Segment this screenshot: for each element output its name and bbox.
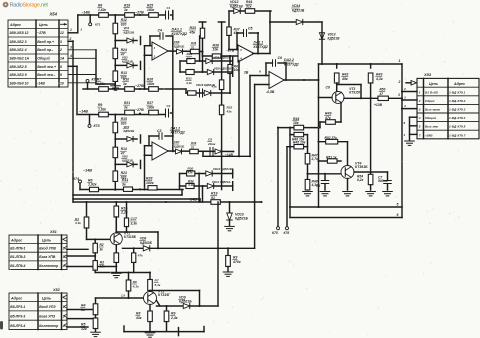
svg-text:2: 2 [80,28,83,32]
svg-text:Вход УПВ: Вход УПВ [39,247,56,251]
svg-text:-14В: -14В [37,81,45,85]
svg-text:2,4к: 2,4к [170,316,178,320]
svg-text:10: 10 [60,81,64,85]
svg-text:КД521Б: КД521Б [235,217,249,221]
svg-text:2В: 2В [243,71,249,75]
svg-text:2: 2 [69,37,72,41]
svg-text:Вход УПЗ: Вход УПЗ [39,305,56,309]
svg-text:51: 51 [191,145,195,149]
svg-text:К75: К75 [272,231,278,235]
svg-text:VD9 КД521В: VD9 КД521В [214,66,231,70]
svg-text:4: 4 [418,116,421,120]
svg-text:R52 27к: R52 27к [325,136,338,140]
svg-text:В5-ЛР3-4: В5-ЛР3-4 [10,324,25,328]
svg-text:КД521В: КД521В [292,8,305,12]
svg-text:С6: С6 [278,56,282,60]
svg-text:КД521В: КД521В [230,5,243,9]
svg-text:4,3к: 4,3к [185,81,192,85]
svg-text:1-ВД-Х79.3: 1-ВД-Х79.3 [449,108,466,112]
svg-text:VD10 КД521В: VD10 КД521В [213,167,232,171]
svg-text:Вых лев: Вых лев [425,125,438,129]
svg-text:6: 6 [404,121,406,125]
svg-text:1: 1 [70,28,72,32]
svg-text:Цепь: Цепь [42,238,51,242]
svg-text:3: 3 [419,108,421,112]
svg-text:3: 3 [398,93,400,97]
svg-text:КТ315Б: КТ315Б [124,235,137,239]
svg-text:R45 10к: R45 10к [293,140,306,144]
svg-text:3к: 3к [81,308,85,312]
svg-text:Адрес: Адрес [453,82,465,86]
svg-text:База УПВ: База УПВ [39,255,56,259]
svg-text:3к: 3к [123,82,127,86]
svg-text:47к: 47к [324,116,331,120]
svg-text:К157УД2: К157УД2 [172,32,188,36]
svg-text:Общий: Общий [425,116,436,120]
svg-text:180к: 180к [147,82,155,86]
svg-text:4,3к: 4,3к [74,221,81,225]
svg-text:Вход лев.+: Вход лев.+ [37,65,56,69]
svg-text:КД521В: КД521В [122,60,133,64]
svg-text:С3: С3 [157,129,162,133]
svg-text:1: 1 [154,46,156,50]
svg-text:Вход пр.+: Вход пр.+ [37,40,54,44]
svg-text:43к: 43к [186,57,192,61]
svg-text:180к: 180к [147,105,155,109]
svg-text:Сброс: Сброс [425,99,435,103]
svg-text:~14В: ~14В [79,110,88,114]
svg-text:К74: К74 [73,177,79,181]
svg-text:1-ВД-Х79.1: 1-ВД-Х79.1 [449,90,466,94]
svg-text:RadioStorage.net: RadioStorage.net [10,3,49,9]
svg-text:КТ315Г: КТ315Г [158,293,171,297]
svg-text:12: 12 [60,31,64,35]
svg-text:1В9-ХБ0 10: 1В9-ХБ0 10 [9,81,28,85]
svg-text:3,3к: 3,3к [131,221,138,225]
svg-text:1В9-ХБ2 8: 1В9-ХБ2 8 [9,65,26,69]
svg-text:180к: 180к [146,181,154,185]
svg-text:КТ315Г: КТ315Г [349,91,362,95]
svg-text:3к: 3к [100,247,104,251]
svg-text:Коллектор: Коллектор [39,264,58,268]
svg-text:К157УД2: К157УД2 [254,45,268,49]
svg-text:В5-ЛР3-1: В5-ЛР3-1 [10,305,25,309]
svg-text:51: 51 [211,196,215,200]
svg-text:4,3к: 4,3к [187,183,194,187]
svg-text:4,3к: 4,3к [375,77,383,81]
svg-text:8: 8 [60,65,62,69]
svg-text:КД521В: КД521В [124,129,135,133]
svg-text:2,7к: 2,7к [311,157,319,161]
svg-text:12к: 12к [81,327,87,331]
svg-text:500мк: 500мк [378,179,388,183]
svg-text:С1: С1 [167,6,171,10]
svg-text:180к: 180к [147,8,155,12]
svg-text:КД521В: КД521В [124,31,135,35]
svg-text:~27В: ~27В [135,108,144,112]
svg-text:4: 4 [62,324,65,328]
svg-text:43к: 43к [211,84,217,88]
svg-text:+13В: +13В [374,103,383,107]
svg-text:С8: С8 [326,86,330,90]
svg-text:КД521В: КД521В [328,36,341,40]
svg-text:3: 3 [60,40,62,44]
svg-text:45к: 45к [341,77,348,81]
svg-text:Адрес: Адрес [10,238,22,242]
svg-text:5,1к: 5,1к [155,283,161,287]
svg-text:+14В: +14В [188,198,197,202]
svg-text:Х52: Х52 [52,288,61,292]
svg-text:2: 2 [403,87,406,91]
svg-text:КД521В: КД521В [122,159,133,163]
svg-text:1,62к: 1,62к [97,82,105,86]
svg-text:6,2к: 6,2к [357,178,364,182]
svg-text:3: 3 [404,95,406,99]
svg-text:~27В: ~27В [135,11,144,15]
svg-text:51к: 51к [246,5,252,9]
svg-text:КД503Б: КД503Б [174,144,184,148]
svg-text:2: 2 [59,48,62,52]
svg-text:С2: С2 [167,104,171,108]
svg-text:Х51: Х51 [49,230,57,234]
svg-text:1-ВД-Х79.2: 1-ВД-Х79.2 [449,99,466,103]
svg-text:К73: К73 [94,124,100,128]
svg-text:R51 1к: R51 1к [326,155,337,159]
svg-text:43к: 43к [187,171,193,175]
svg-text:43к: 43к [226,109,232,113]
svg-text:К157УД2: К157УД2 [171,131,185,135]
svg-text:~27В: ~27В [135,84,144,88]
svg-text:Цепь: Цепь [429,82,438,86]
svg-text:470к: 470к [232,260,241,264]
svg-text:Цепь: Цепь [39,23,48,27]
svg-text:1А: 1А [60,57,65,61]
svg-text:2: 2 [153,55,156,59]
svg-text:Адрес: Адрес [10,297,22,301]
svg-text:Адрес: Адрес [9,23,21,27]
svg-text:К76: К76 [284,231,290,235]
svg-text:+28В: +28В [425,133,433,137]
svg-text:47: 47 [379,92,384,96]
svg-text:3к: 3к [124,105,128,109]
svg-text:КТ361Б: КТ361Б [355,165,368,169]
svg-text:Вход лев.-: Вход лев.- [37,73,56,77]
svg-text:КД503Б: КД503Б [140,241,153,245]
svg-text:10к: 10к [213,48,219,52]
svg-text:10к: 10к [293,121,299,125]
svg-text:1,62к: 1,62к [98,8,106,12]
svg-text:Х54: Х54 [49,11,58,16]
svg-text:9: 9 [60,73,62,77]
svg-text:1В9-ХБ5 12: 1В9-ХБ5 12 [9,31,28,35]
svg-text:3к: 3к [124,8,128,12]
svg-text:3: 3 [70,45,72,49]
svg-text:47к: 47к [137,253,143,257]
svg-text:~27В: ~27В [37,31,46,35]
svg-text:1-ВД-Х79.4: 1-ВД-Х79.4 [449,116,466,120]
svg-text:12к: 12к [100,265,106,269]
svg-text:В1-ЛП9-3: В1-ЛП9-3 [10,255,25,259]
svg-text:1,62к: 1,62к [88,183,97,187]
svg-text:1В9-ХБ2 3: 1В9-ХБ2 3 [9,40,26,44]
svg-text:6: 6 [397,213,399,217]
svg-text:КД521Б: КД521Б [179,300,192,304]
svg-text:База УПЗ: База УПЗ [39,315,56,319]
svg-text:К71: К71 [95,23,101,27]
svg-text:В1 Б+2В: В1 Б+2В [425,90,439,94]
svg-text:1-ВД-Х79.7: 1-ВД-Х79.7 [449,133,466,137]
svg-text:1В9-ХБ1 4: 1В9-ХБ1 4 [9,48,26,52]
svg-text:3: 3 [240,48,242,52]
svg-text:1: 1 [419,90,421,94]
svg-text:2: 2 [398,80,401,84]
svg-text:-0,5В: -0,5В [266,90,275,94]
svg-text:20мк: 20мк [207,142,216,146]
svg-text:1-ВД-Х79.5: 1-ВД-Х79.5 [449,125,466,129]
svg-text:1,62к: 1,62к [98,107,106,111]
svg-text:3к: 3к [122,182,126,186]
svg-text:Общий: Общий [37,57,50,61]
svg-text:Цепь: Цепь [42,297,51,301]
svg-text:~14В: ~14В [83,169,92,173]
svg-text:4,3к: 4,3к [132,284,139,288]
svg-text:5: 5 [419,125,421,129]
svg-text:5: 5 [397,203,399,207]
svg-text:1В9-ХБ3 9: 1В9-ХБ3 9 [9,73,26,77]
svg-text:1В9-ХБ2 1А: 1В9-ХБ2 1А [9,57,29,61]
svg-text:КД503Б: КД503Б [174,44,184,48]
svg-text:51: 51 [191,45,195,49]
svg-text:1: 1 [404,133,406,137]
svg-text:Х53: Х53 [423,72,432,77]
svg-text:Вход пр.-: Вход пр.- [37,48,54,52]
svg-text:С5: С5 [248,27,253,31]
svg-text:Коллектор: Коллектор [39,324,58,328]
svg-text:Вых прав: Вых прав [425,108,440,112]
svg-text:4: 4 [69,54,72,58]
svg-text:7: 7 [419,133,421,137]
svg-text:43к: 43к [135,316,142,320]
svg-text:В1-ЛП9-4: В1-ЛП9-4 [10,264,25,268]
svg-text:6: 6 [259,70,261,74]
svg-text:4: 4 [62,264,65,268]
svg-text:~14В: ~14В [82,10,91,14]
svg-text:4: 4 [403,104,406,108]
svg-text:45к: 45к [189,30,196,34]
svg-text:1,8: 1,8 [121,294,125,298]
svg-text:1: 1 [399,59,401,63]
svg-text:2: 2 [418,99,421,103]
svg-text:VD11 КД521Б: VD11 КД521Б [212,180,231,184]
svg-text:В5-ЛР3-3: В5-ЛР3-3 [10,315,25,319]
svg-text:С4: С4 [158,29,163,33]
